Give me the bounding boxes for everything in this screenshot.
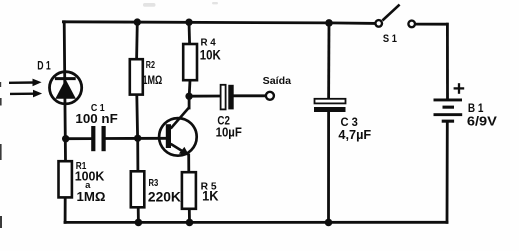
svg-text:4,7µF: 4,7µF xyxy=(338,127,371,142)
wire C3 column top xyxy=(327,23,330,99)
node base junction xyxy=(134,135,141,142)
wire collector node to C2 xyxy=(189,95,220,98)
svg-text:Saída: Saída xyxy=(263,75,292,87)
svg-text:220K: 220K xyxy=(148,189,181,205)
plus sign xyxy=(454,83,465,94)
resistor R1 xyxy=(59,161,72,197)
wire top rail xyxy=(63,22,375,24)
svg-text:100 nF: 100 nF xyxy=(75,111,117,126)
svg-text:1MΩ: 1MΩ xyxy=(143,73,163,87)
node C1 junction xyxy=(62,135,69,142)
resistor R4 xyxy=(183,44,197,80)
capacitor C1 xyxy=(91,126,106,151)
svg-text:10K: 10K xyxy=(200,46,221,62)
wire C1 junction to C1 xyxy=(66,137,91,140)
svg-text:6/9V: 6/9V xyxy=(467,114,497,129)
wire right column lower xyxy=(446,123,449,222)
light arrow 2 xyxy=(10,90,42,98)
svg-text:R3: R3 xyxy=(149,178,159,189)
wire emitter vertical xyxy=(187,155,190,172)
svg-text:D 1: D 1 xyxy=(37,59,51,73)
resistor R3 xyxy=(131,171,145,207)
svg-text:R2: R2 xyxy=(146,60,156,71)
wire C2 to output terminal xyxy=(234,94,265,97)
svg-text:1MΩ: 1MΩ xyxy=(77,189,106,204)
capacitor C3 xyxy=(314,99,346,112)
wire R4 column top xyxy=(188,22,191,44)
resistor R5 xyxy=(182,172,196,209)
wire C3 to bottom rail xyxy=(327,112,330,222)
node top R2 xyxy=(134,18,141,25)
wire base node to R3 xyxy=(136,138,139,171)
scan artifacts xyxy=(0,82,2,228)
light arrow 1 xyxy=(9,79,42,87)
node bottom R3 xyxy=(135,219,143,227)
wire R4 to collector node xyxy=(188,80,192,96)
wire R3 to bottom rail xyxy=(137,207,140,222)
node collector junction xyxy=(185,93,192,100)
wire R5 to bottom rail xyxy=(188,209,191,223)
node top R4 xyxy=(185,19,192,26)
switch S1 xyxy=(375,5,415,28)
wire right column upper xyxy=(446,24,449,98)
svg-text:1K: 1K xyxy=(202,188,219,203)
wire left column lower xyxy=(64,197,67,222)
output terminal xyxy=(266,92,274,100)
node bottom C3 xyxy=(325,219,333,227)
svg-text:10µF: 10µF xyxy=(216,125,242,140)
battery B1 xyxy=(434,99,463,123)
transistor Q1 xyxy=(159,107,197,155)
resistor R2 xyxy=(130,59,143,94)
wire C1 to base xyxy=(106,137,166,140)
wire collector vertical xyxy=(188,96,191,108)
wire left column xyxy=(64,22,65,161)
capacitor C2 xyxy=(221,85,234,110)
node bottom R5 xyxy=(186,219,194,227)
photodiode D1 xyxy=(50,72,82,104)
wire R2 to base node xyxy=(135,95,139,139)
wire top right segment xyxy=(415,23,447,26)
wire R2 column top xyxy=(135,22,138,59)
svg-text:S 1: S 1 xyxy=(383,33,397,45)
node top C3 xyxy=(325,19,333,27)
wire bottom rail xyxy=(65,221,447,224)
